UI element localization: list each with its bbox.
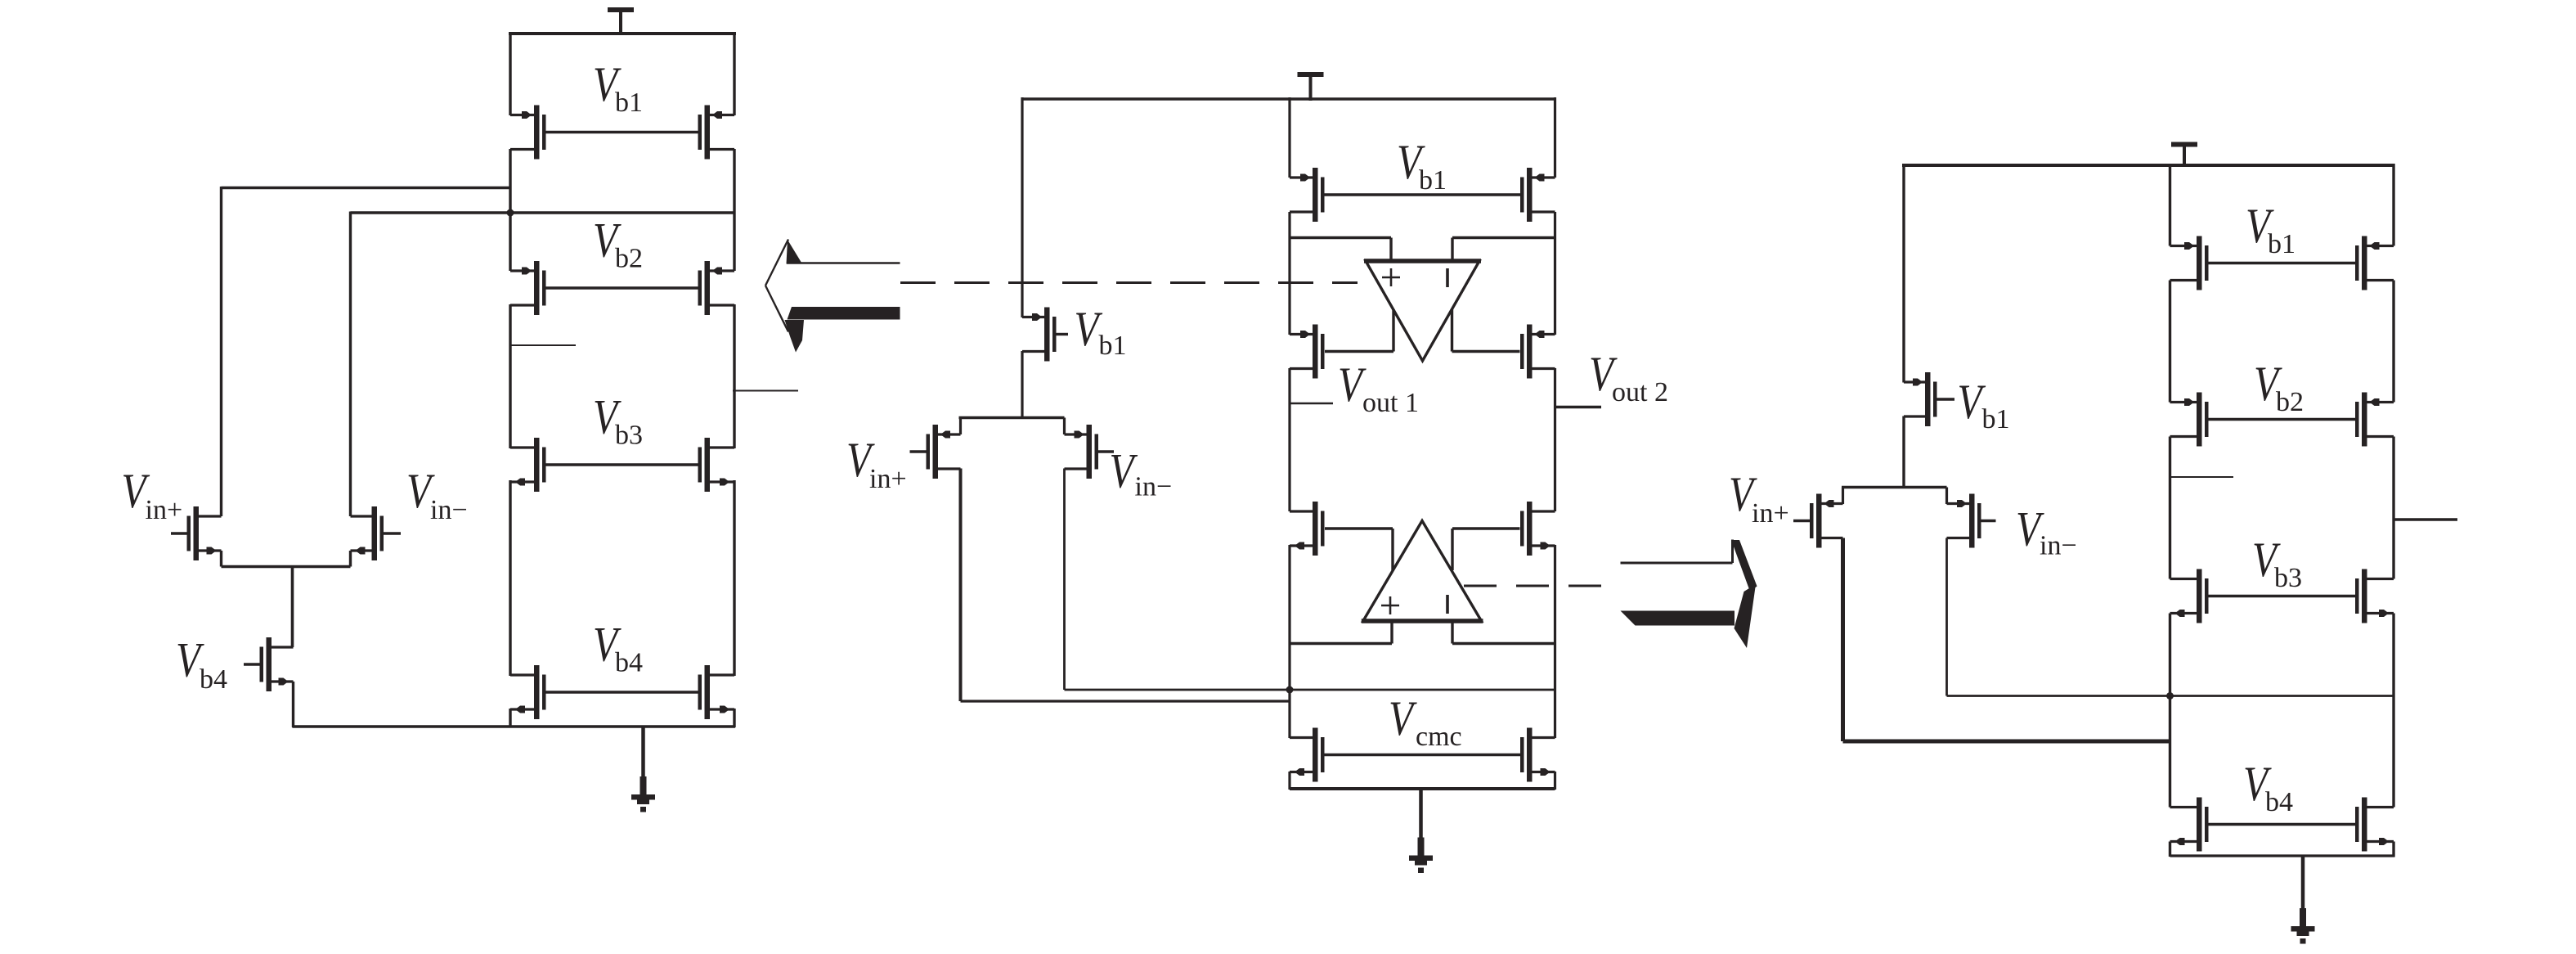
svg-text:b4: b4 (200, 664, 227, 695)
power VDD symbol (left circuit) (608, 7, 634, 35)
svg-text:in+: in+ (146, 495, 183, 525)
transistor pair Vb3 (right circuit) left (2170, 569, 2209, 623)
transistor pair Vb3 (right circuit) gate wire (2209, 595, 2356, 597)
power VDD symbol (middle circuit) (1298, 72, 1324, 101)
op-amp U2 minus sign (1446, 595, 1449, 614)
transistor Vin+ (left circuit) (171, 506, 222, 560)
wire bottom rail (right circuit) (2170, 854, 2395, 857)
svg-text:b2: b2 (2276, 387, 2304, 417)
op-amp U1 minus sign (1446, 268, 1449, 287)
wire stub inner tap (right circuit) (2170, 476, 2234, 478)
svg-text:b4: b4 (615, 648, 643, 678)
transistor pair Vb2 (left circuit) left (510, 261, 546, 315)
label Vin- (left circuit) (406, 464, 468, 525)
transistor pair Vb1 (middle circuit) gate wire (1325, 193, 1521, 196)
op-amp U2 (lower triangle) (1362, 521, 1483, 622)
svg-text:in−: in− (430, 495, 468, 525)
junction dot y850 on inner-left rail (right) (2166, 692, 2174, 700)
wire outer-left rail (right circuit) (1902, 164, 1905, 488)
wire cascode NMOS left gate to op-amp U2 (1325, 529, 1393, 570)
transistor Vb1 current source (middle circuit) (1022, 308, 1068, 362)
svg-text:b1: b1 (1982, 404, 2010, 434)
op-amp U1 plus sign (1382, 268, 1400, 286)
wire Vin- drain horizontal y843 (1065, 689, 1555, 691)
label Vb3 (left circuit) (593, 390, 643, 451)
transistor pair Vb4 (right circuit) left (2170, 798, 2209, 852)
svg-text:b2: b2 (615, 244, 643, 274)
transistor pair Vcmc (middle circuit) right (1520, 728, 1555, 782)
wire bottom rail (middle circuit) (1290, 787, 1555, 790)
wire Vin+ drain horizontal y857 (961, 700, 1291, 702)
svg-text:b1: b1 (1419, 165, 1447, 196)
label Vb1 (middle circuit) (1397, 135, 1447, 196)
wire stub left output tap (510, 344, 576, 346)
label Vb2 (right circuit) (2254, 357, 2304, 417)
transistor pair cascode NMOS (middle circuit) right (1520, 502, 1555, 556)
wire tail corner Vin+ (220, 551, 222, 567)
transistor pair Vcmc (middle circuit) gate wire (1325, 754, 1521, 756)
label Vb4 (left circuit) (593, 618, 643, 678)
wire cascode PMOS left gate to op-amp U1 (1325, 309, 1393, 352)
op-amp U1 (upper triangle) (1364, 261, 1481, 361)
svg-text:V: V (1389, 691, 1417, 745)
label Vb3 (right circuit) (2252, 533, 2302, 593)
wire node B horizontal (to right rail) (351, 211, 735, 214)
wire tail corner Vin- (349, 551, 352, 567)
transistor pair Vb1 (right circuit) right (2355, 236, 2394, 290)
svg-text:in+: in+ (1752, 498, 1789, 529)
wire op-amp1 - input (1452, 238, 1555, 263)
transistor pair cascode NMOS (middle circuit) left (1290, 502, 1325, 556)
transistor Vin- (right circuit) (1947, 494, 1996, 548)
transistor pair Vb4 (left circuit) gate wire (546, 691, 698, 693)
transistor pair Vb3 (left circuit) right (698, 438, 735, 492)
wire output stub (right circuit) (2394, 518, 2457, 521)
svg-text:b1: b1 (2268, 229, 2296, 259)
transistor pair Vb1 (left circuit) left (510, 106, 546, 160)
transistor pair Vb3 (left circuit) gate wire (546, 463, 698, 466)
wire left rail (left circuit) (509, 32, 511, 727)
label Vin- (right circuit) (2016, 502, 2077, 561)
wire inner-left rail (right circuit) (2169, 164, 2171, 857)
wire op-amp2 + input (1290, 619, 1392, 644)
wire top rail (right circuit) (1902, 164, 2395, 167)
wire Vin- source corner (middle) (1063, 418, 1066, 435)
transistor pair cascode PMOS (middle circuit) right (1520, 325, 1555, 379)
svg-text:out 2: out 2 (1612, 377, 1668, 407)
wire node B vertical (349, 212, 352, 517)
transistor Vin+ (right circuit) (1793, 494, 1843, 548)
label Vb1 current source (right circuit) (1958, 375, 2010, 434)
transistor Vin- (middle circuit) (1065, 425, 1115, 479)
transistor pair Vb4 (left circuit) right (698, 665, 735, 719)
ground (right circuit) (2291, 856, 2315, 944)
wire op-amp1 + input (1290, 238, 1391, 263)
wire tail (left circuit) (222, 565, 351, 569)
transistor pair Vb4 (right circuit) gate wire (2209, 823, 2356, 826)
svg-text:V: V (1110, 444, 1138, 498)
transistor pair cascode PMOS (middle circuit) left (1290, 325, 1325, 379)
label Vb4 (right circuit) (2243, 757, 2293, 817)
transistor pair Vb1 (middle circuit) right (1520, 168, 1555, 222)
wire top rail (left circuit) (509, 32, 736, 35)
wire op-amp2 - input (1452, 619, 1555, 644)
wire right rail (right circuit) (2392, 164, 2394, 857)
junction dot node B on left rail (507, 209, 514, 217)
wire top rail (middle circuit) (1021, 97, 1557, 101)
label Vout2 (1589, 347, 1668, 407)
wire tail line (middle circuit) (959, 416, 1065, 420)
wire Vin+ drain drop (middle) (959, 469, 963, 702)
label Vin+ (right circuit) (1729, 467, 1789, 529)
wire bottom rail (left circuit) (293, 725, 736, 727)
transistor Vb1 current source (right circuit) (1904, 372, 1954, 426)
wire Vout2 stub (1555, 406, 1602, 408)
wire stub right output tap (733, 390, 798, 392)
transistor pair Vb2 (left circuit) gate wire (546, 286, 698, 289)
transistor Vin+ (middle circuit) (910, 425, 961, 479)
transistor pair Vb4 (right circuit) right (2355, 798, 2394, 852)
ground (middle circuit) (1409, 789, 1433, 873)
wire tail drop to Vb4 (291, 567, 294, 648)
wire Vin- drain drop (right) (1945, 538, 1948, 696)
wire right rail (left circuit) (733, 32, 735, 727)
label Vb1 (left circuit) (593, 57, 643, 118)
transistor pair Vb2 (left circuit) right (698, 261, 735, 315)
label Vin+ (middle circuit) (846, 433, 907, 494)
wire Vin+ source corner (right) (1842, 488, 1844, 505)
label Vb2 (left circuit) (593, 214, 643, 274)
ground (left circuit) (631, 727, 655, 812)
wire node A horizontal (to Vin+ drain) (222, 187, 512, 189)
svg-text:b3: b3 (2274, 563, 2302, 593)
wire Vin+ drain horizontal y906 (1843, 740, 2172, 744)
label Vin- (middle circuit) (1110, 444, 1173, 502)
wire Vin+ drain drop (right) (1841, 538, 1845, 742)
label Vout1 (1338, 358, 1419, 418)
wire Vin- drain horizontal y850 (1947, 695, 2394, 697)
transistor Vb4 tail current source (left circuit) (244, 637, 294, 691)
wire Vin+ source corner (middle) (959, 418, 962, 435)
label Vb4 tail (left circuit) (176, 633, 227, 695)
label Vin+ (left circuit) (122, 464, 183, 525)
svg-text:b1: b1 (1099, 331, 1127, 361)
transistor pair Vb1 (right circuit) left (2170, 236, 2209, 290)
wire Vout1 stub (1290, 403, 1333, 405)
transistor pair Vb2 (right circuit) left (2170, 393, 2209, 447)
dashed feedback line upper (900, 281, 1358, 284)
wire right rail (middle circuit) (1554, 97, 1556, 790)
block arrow pointing left (765, 240, 900, 353)
transistor pair Vb1 (right circuit) gate wire (2209, 262, 2356, 264)
wire cascode PMOS right gate to op-amp U1 (1452, 309, 1520, 352)
wire outer-left rail (middle circuit) (1021, 97, 1023, 419)
transistor pair Vb1 (left circuit) right (698, 106, 735, 160)
wire Vb4 source to bottom rail (292, 682, 294, 727)
svg-text:b4: b4 (2265, 787, 2293, 817)
svg-text:b3: b3 (615, 421, 643, 451)
svg-text:cmc: cmc (1416, 722, 1462, 752)
block arrow pointing right (1621, 540, 1757, 649)
wire tail line (right circuit) (1842, 486, 1947, 488)
label Vcmc (middle circuit) (1389, 691, 1462, 752)
transistor pair Vb3 (left circuit) left (510, 438, 546, 492)
transistor pair Vb1 (middle circuit) left (1290, 168, 1325, 222)
wire Vin- source corner (right) (1945, 488, 1948, 505)
junction dot y843 on inner-left rail (1286, 686, 1294, 694)
op-amp U2 plus sign (1381, 596, 1399, 614)
svg-text:in−: in− (2040, 531, 2077, 561)
transistor pair Vb4 (left circuit) left (510, 665, 546, 719)
transistor pair Vb1 (left circuit) gate wire (546, 131, 698, 133)
transistor pair Vb2 (right circuit) gate wire (2209, 418, 2356, 421)
svg-text:out 1: out 1 (1362, 388, 1419, 418)
transistor pair Vcmc (middle circuit) left (1290, 728, 1325, 782)
wire cascode NMOS right gate to op-amp U2 (1452, 529, 1520, 570)
wire inner-left rail (middle circuit) (1288, 97, 1290, 790)
svg-text:b1: b1 (615, 88, 643, 118)
power VDD symbol (right circuit) (2171, 142, 2197, 168)
wire Vin- drain drop (middle) (1063, 469, 1066, 691)
transistor pair Vb2 (right circuit) right (2355, 393, 2394, 447)
svg-text:in+: in+ (869, 464, 907, 494)
dashed feedback line lower (1464, 585, 1604, 587)
transistor Vin- (left circuit) (351, 506, 402, 560)
transistor pair Vb3 (right circuit) right (2355, 569, 2394, 623)
svg-text:in−: in− (1135, 472, 1173, 502)
label Vb1 (right circuit) (2246, 199, 2296, 259)
wire node A vertical (220, 187, 222, 516)
label Vb1 current source (middle circuit) (1075, 302, 1127, 361)
